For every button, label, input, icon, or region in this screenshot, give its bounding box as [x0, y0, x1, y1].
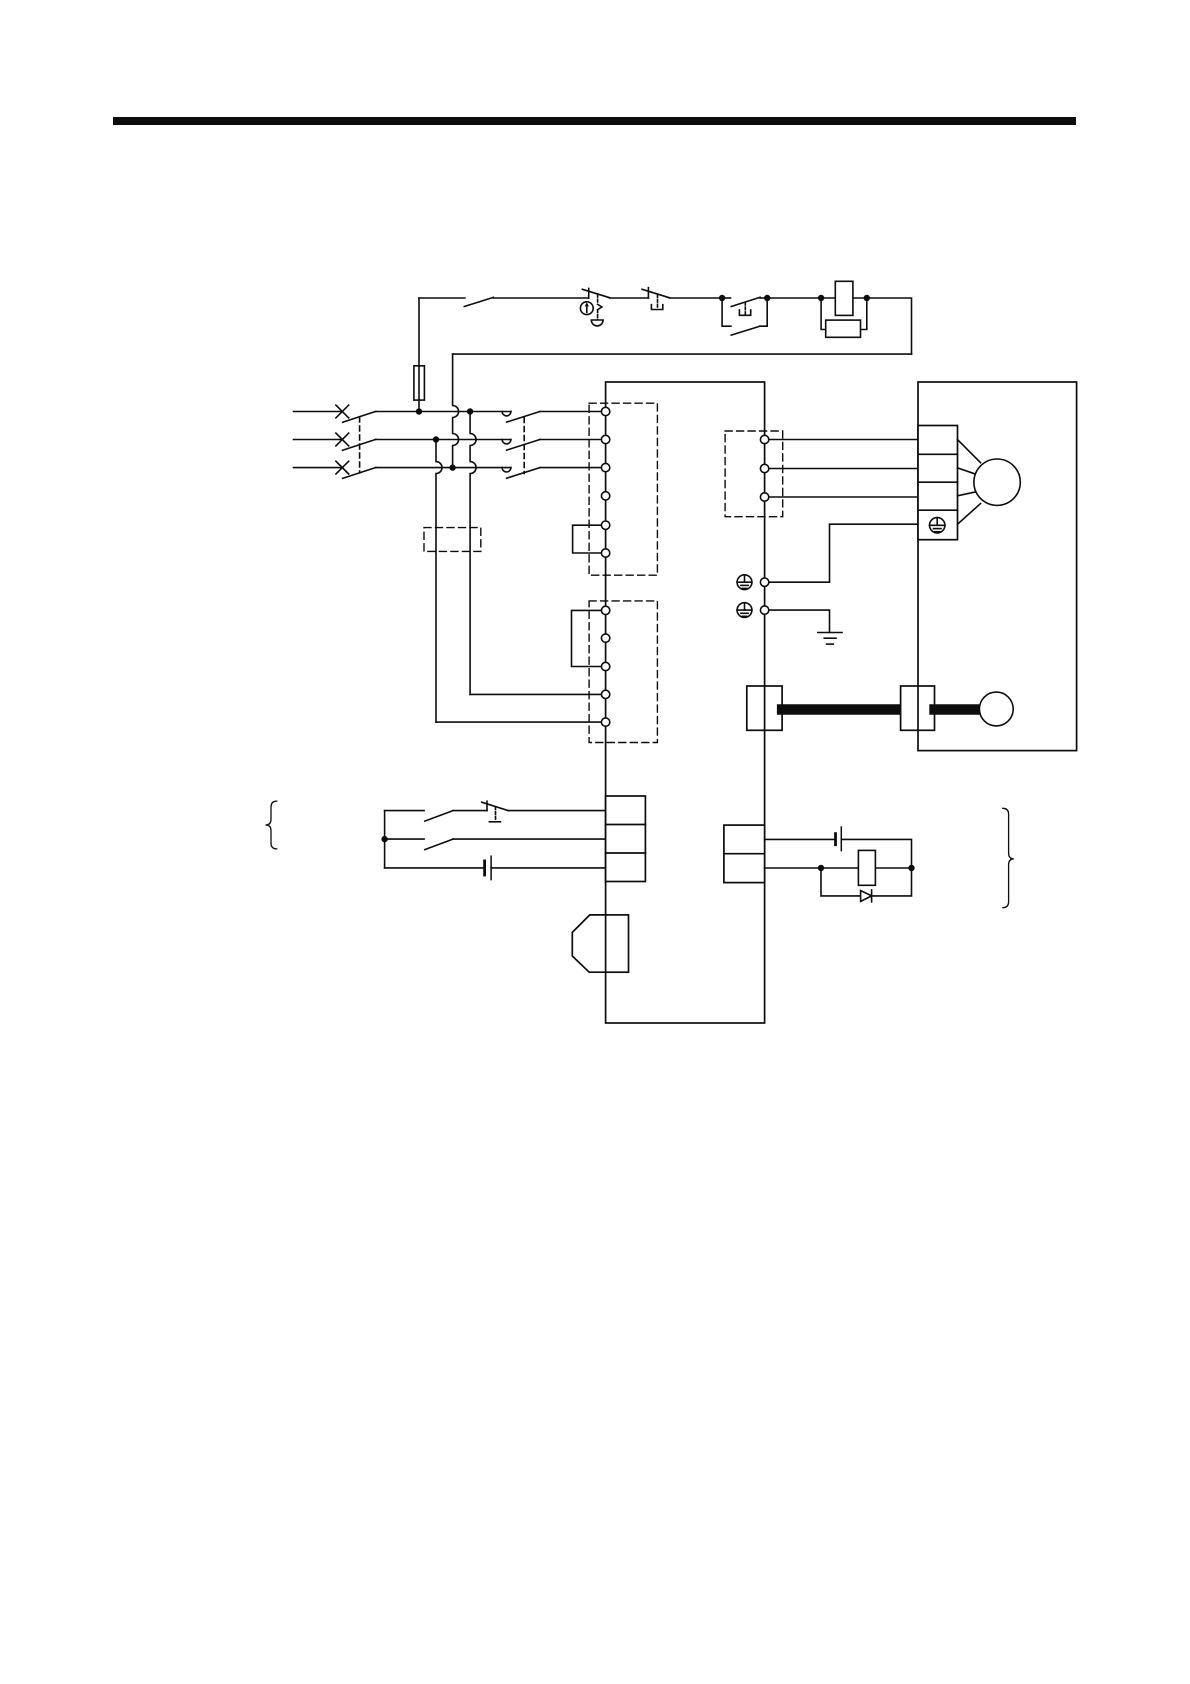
terminal P [601, 606, 609, 614]
line noise filter (dashed box) [424, 528, 481, 552]
lead: PE terminal to motor winding [958, 504, 981, 525]
flywheel diode across relay coil [861, 890, 872, 902]
wire: top rail segment 3 [610, 297, 649, 299]
CNP1 main circuit terminal block (dashed box) [589, 403, 657, 575]
OFF pushbutton (NC contact) [642, 288, 669, 298]
forced stop button EM1 (NC contact) [482, 801, 509, 810]
EMG mushroom head [591, 320, 603, 326]
CNP2 control circuit terminal block (dashed box) [589, 601, 657, 743]
MC self-holding auxiliary contact (NO) [731, 326, 760, 335]
node B: ON button parallel junction right [764, 295, 770, 301]
surge absorber across MC coil [826, 320, 861, 337]
wire: control return drop to L3 (with crossovers) [453, 354, 459, 468]
wire: 24VDC supply lead [385, 867, 485, 869]
terminal U [760, 435, 768, 443]
forced stop manual actuator (dashed stem and bar) [489, 807, 500, 822]
terminal PE2 [760, 606, 768, 614]
wire: flywheel diode branch [821, 868, 912, 896]
circuit breaker NFB pole 2 (X mark and contact) [336, 433, 376, 450]
wire: surge absorber branch left [821, 298, 826, 330]
emergency stop pushbutton EMG (NC contact) [582, 288, 609, 298]
node C: MC coil junction left [818, 295, 824, 301]
wire: L21 into CNP2 terminal [436, 721, 601, 723]
wire: top rail segment 2 [493, 297, 588, 299]
terminal L2 [601, 435, 609, 443]
terminal P2 [601, 549, 609, 557]
terminal V [760, 464, 768, 472]
motor winding (circle) [974, 459, 1020, 505]
wire: MC self-holding branch left drop [722, 298, 731, 326]
protective earth symbol PE2 [737, 603, 752, 618]
motor power terminal box [918, 426, 958, 540]
node: junction on L3 for control return [449, 464, 455, 470]
jumper bar P-D [572, 610, 602, 666]
wire: L3 MC to servo amplifier [540, 467, 602, 469]
wire: surge absorber branch right [861, 298, 867, 330]
terminal L1 [601, 407, 609, 415]
terminal P1 [601, 521, 609, 529]
brace: external input signal group [266, 801, 277, 849]
protective earth symbol PE1 [737, 575, 752, 590]
battery: 24VDC external supply [485, 856, 492, 879]
node: L21 tap on phase L2 [433, 436, 439, 442]
wire: input branch 2 into CN1 cell 2 [453, 838, 606, 840]
wire: battery to relay branch [841, 839, 911, 868]
wire: L3 NFB to MC [376, 467, 511, 469]
wire: L11 feed down (with crossovers) [470, 412, 476, 695]
terminal L3 [601, 463, 609, 471]
magnetic contactor MC pole 3 [502, 468, 540, 479]
terminal N [601, 492, 609, 500]
wire: top rail segment 1 [419, 297, 465, 299]
EMG trip-reset symbol (circle with arrow) [580, 302, 593, 315]
wire: L1 MC to servo amplifier [540, 411, 602, 413]
relay coil RA [858, 850, 875, 885]
wire: MC self-holding branch right rise [760, 298, 767, 326]
header rule bar [113, 117, 1076, 125]
terminal D [601, 662, 609, 670]
wire: L2 NFB to MC [376, 439, 511, 441]
wire: L11 into CNP2 terminal [470, 693, 601, 695]
wire: through MC coil [821, 297, 867, 299]
wire: forced stop into CN1 cell 1 [508, 810, 605, 812]
wire: to forced stop button [453, 810, 487, 812]
CNP3 motor output terminal block (dashed box) [725, 431, 783, 517]
wire: output branch to relay coil [765, 867, 912, 869]
magnetic contactor MC pole 1 [502, 412, 540, 423]
ON pushbutton actuator (dashed stem and cap) [739, 302, 750, 315]
wire: input branch 2 lead [385, 838, 425, 840]
jumper bar P1-P2 [573, 525, 602, 553]
wire: 24VDC into CN1 cell 3 [491, 867, 605, 869]
ON pushbutton (NO contact) [731, 297, 760, 306]
protective earth symbol in motor terminal box [930, 518, 945, 533]
three-phase line L2 [294, 439, 343, 441]
CN2 encoder connector on amplifier [747, 686, 782, 730]
CN1 input signal connector block [606, 796, 646, 882]
terminal C [601, 634, 609, 642]
three-phase line L1 [294, 411, 343, 413]
wire: PE2 to protective earth [769, 610, 830, 632]
lead: W terminal to motor winding [958, 492, 975, 496]
external switch contact 2 (NO) [425, 839, 453, 850]
magnetic contactor MC pole 2 [502, 440, 540, 451]
ground (protective earth) [818, 633, 842, 645]
MC mechanical linkage (dashed) [523, 418, 525, 474]
node: forced stop common junction [381, 836, 387, 842]
node: relay parallel junction left [818, 865, 824, 871]
node A: ON button parallel junction left [719, 295, 725, 301]
wire: L21 feed down (with crossover) [436, 440, 442, 723]
OFF pushbutton actuator (dashed stem and cap) [651, 295, 662, 310]
magnetic contactor coil MC [835, 281, 853, 315]
node: L11 tap on phase L1 [467, 408, 473, 414]
wire: U phase to motor [769, 439, 918, 441]
wire: control power feed from L1 down to fuse [418, 298, 420, 366]
terminal W [760, 493, 768, 501]
circuit breaker NFB pole 3 (X mark and contact) [336, 461, 376, 478]
circuit breaker NFB pole 1 (X mark and contact) [336, 405, 376, 422]
wire: top rail segment 4 [669, 297, 722, 299]
wire: control return rail [453, 353, 912, 355]
encoder connector on motor [901, 686, 935, 730]
CN3 communication connector (D-sub plug) [572, 915, 628, 972]
lead: V terminal to motor winding [958, 468, 975, 474]
three-phase line L3 [294, 467, 343, 469]
switch contact (control circuit disconnect) [464, 297, 493, 306]
wire: stub to ON contact [722, 297, 730, 299]
encoder cable stub to encoder [935, 704, 981, 714]
NFB mechanical linkage (dashed) [359, 417, 361, 473]
node: relay parallel junction right [908, 865, 914, 871]
wire: top rail segment 5 [767, 297, 821, 299]
encoder cable (thick) [782, 704, 901, 714]
wire: forced stop branch lead [385, 810, 425, 812]
wire: forced stop common vertical [384, 811, 386, 868]
wire: V phase to motor [769, 468, 918, 470]
servo motor body outline [918, 382, 1077, 751]
node: junction on L1 for control feed [416, 408, 422, 414]
external switch contact (NO) [425, 811, 453, 822]
terminal L11 [601, 690, 609, 698]
encoder (circle) [979, 692, 1013, 726]
battery: 24VDC interface supply [836, 827, 842, 851]
wire: top rail segment 6 and return drop [867, 298, 912, 354]
EMG actuator linkage (dashed stem with spring) [598, 295, 602, 320]
wire: fuse to phase L1 tap [418, 400, 420, 412]
wire: L1 NFB to MC [376, 411, 511, 413]
wire: PE1 to motor earth terminal [769, 524, 918, 582]
wire: ON contact to node B [760, 297, 767, 299]
wire: W phase to motor [769, 496, 918, 498]
fuse (control circuit protection) [414, 366, 425, 400]
wire: output branch to battery [765, 838, 836, 840]
wire: L2 MC to servo amplifier [540, 439, 602, 441]
terminal PE1 [760, 578, 768, 586]
terminal L21 [601, 718, 609, 726]
servo amplifier body outline [606, 382, 765, 1023]
CN1 output signal connector block (right side) [724, 825, 765, 883]
node D: MC coil junction right [864, 295, 870, 301]
brace: output signal group [1003, 808, 1014, 907]
lead: U terminal to motor winding [958, 440, 981, 463]
